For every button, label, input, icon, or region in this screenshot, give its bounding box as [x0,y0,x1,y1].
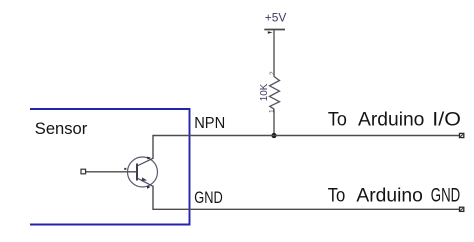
transistor collector diagonal [137,158,153,166]
svg-text:GND: GND [194,188,223,207]
resistor R1 zigzag [270,77,280,110]
wire base [86,171,138,173]
wire GND net [153,208,460,210]
transistor base bar [136,164,138,181]
svg-text:10K: 10K [259,83,270,101]
svg-text:+5V: +5V [265,11,287,24]
wire NPN net [153,135,460,137]
collector pin mark [147,157,151,160]
terminal NPN end mark [460,134,463,136]
terminal base input [81,169,86,174]
junction dot [271,133,276,138]
svg-text:To: To [328,109,347,131]
power rail bar [264,29,285,31]
svg-text:NPN: NPN [194,115,225,132]
power pin 1 [268,31,273,34]
wire emitter vertical [152,186,154,211]
base pin dot [124,168,126,170]
sensor box (blue, open on left) [30,109,190,225]
wire resistor to junction [273,109,275,135]
terminal NPN end [460,133,464,137]
transistor emitter diagonal [137,178,153,186]
svg-text:Arduino: Arduino [356,185,422,207]
svg-text:2: 2 [269,71,276,75]
wire collector vertical [152,135,154,159]
svg-text:To: To [328,185,346,207]
wire +5V to resistor [273,30,275,77]
emitter pin mark [147,186,151,189]
terminal GND end mark [460,208,463,210]
svg-text:I/O: I/O [432,109,461,131]
transistor Q1 circle [128,157,158,187]
emitter arrow [142,177,148,181]
svg-text:Arduino: Arduino [358,109,424,131]
svg-text:Sensor: Sensor [35,120,88,138]
svg-text:GND: GND [431,185,460,207]
terminal GND end [460,207,464,211]
